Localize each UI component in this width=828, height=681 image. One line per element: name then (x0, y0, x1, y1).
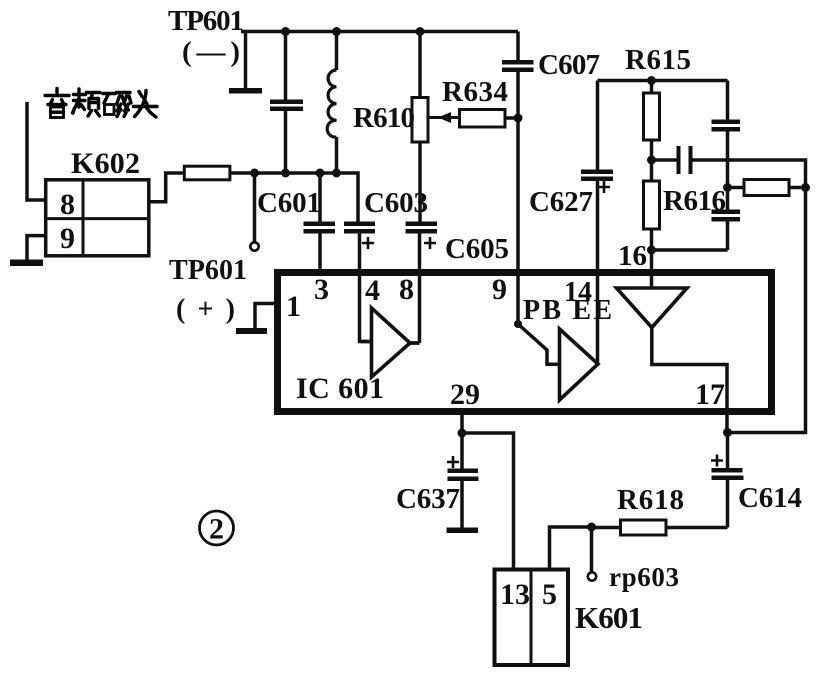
svg-text:4: 4 (365, 274, 380, 307)
test point TP601(+) (253, 173, 257, 242)
svg-text:5: 5 (542, 578, 557, 611)
ground C637 (447, 528, 479, 534)
resistor (feedback, unlabeled) (728, 186, 745, 190)
node pin9 bend (514, 320, 522, 328)
wire U601b output to pin 14 (596, 181, 600, 364)
svg-text:R610: R610 (353, 102, 415, 134)
node A (top bus / C602 junction) (281, 27, 290, 36)
svg-text:C601: C601 (257, 187, 321, 219)
svg-text:9: 9 (492, 273, 507, 306)
resistor R616 (650, 160, 654, 181)
test point rp603 (590, 527, 594, 572)
label 音频磁头 (drawn strokes) (45, 89, 157, 118)
test point TP601(-) lead (244, 32, 248, 89)
node N (pin29) (458, 429, 467, 438)
wire K602 pin8 to resistor (149, 173, 185, 202)
node I (R615 top) (647, 76, 656, 85)
node H (332, 169, 341, 178)
wire mid bus (230, 173, 358, 222)
wire feedback right vertical (693, 160, 806, 433)
svg-text:C627: C627 (529, 186, 593, 218)
svg-text:1: 1 (286, 290, 301, 323)
node C (top bus / R610 junction) (416, 27, 425, 36)
pin 29 wire (460, 415, 464, 433)
svg-text:rp603: rp603 (609, 562, 679, 592)
connector K601 (495, 570, 569, 666)
R610 wiper arrow (428, 116, 460, 119)
figure number (2) (200, 511, 234, 545)
right branch caps (726, 81, 730, 120)
svg-text:K601: K601 (575, 600, 643, 635)
node L (723, 183, 732, 192)
capacitor (right upper, unlabeled) (712, 120, 741, 125)
node M (801, 183, 810, 192)
capacitor C637 (460, 433, 464, 469)
svg-text:R618: R618 (617, 484, 684, 516)
resistor R615 (650, 81, 654, 94)
node F (281, 169, 290, 178)
pin 9 ground wire (27, 236, 46, 260)
pin labels (286, 240, 725, 411)
svg-text:TP601: TP601 (169, 255, 247, 286)
wire opamp output to pin8 (410, 341, 420, 345)
op-amp U601a (372, 308, 411, 377)
svg-text:8: 8 (399, 273, 414, 306)
potentiometer R610 (418, 32, 422, 98)
capacitor C627 (581, 170, 613, 175)
svg-text:C637: C637 (396, 483, 460, 515)
svg-text:16: 16 (618, 240, 647, 272)
wire U601c output to pin 17 (652, 328, 727, 434)
node E (testpoint junction) (250, 169, 259, 178)
svg-text:K602: K602 (71, 147, 140, 180)
node K (pin16) (647, 246, 656, 255)
resistor R634 (460, 110, 506, 128)
svg-text:C605: C605 (445, 233, 509, 265)
svg-text:8: 8 (60, 188, 75, 221)
capacitor (right lower, unlabeled) (712, 210, 741, 215)
IC U601 box (278, 273, 772, 412)
capacitor C605 (406, 222, 438, 227)
label K602 (71, 147, 140, 180)
svg-text:(+): (+) (176, 294, 235, 325)
node P (R618/rp603/K601) (587, 523, 596, 532)
capacitor C603 (344, 222, 375, 227)
resistor (unlabeled, series with head) (184, 166, 230, 180)
head lead wire (to pin 8) (27, 102, 46, 200)
wire top bus (241, 30, 518, 34)
node J (R615/R616/series cap) (647, 156, 656, 165)
inductor L (unlabeled) (335, 32, 339, 71)
wire top-right bus (598, 79, 728, 83)
label TP601(-) (168, 5, 244, 68)
capacitor C614 (726, 433, 730, 468)
wire pin16 into IC / op-amp U601c (617, 288, 688, 328)
svg-text:C603: C603 (364, 187, 428, 219)
svg-text:R634: R634 (442, 76, 508, 108)
svg-text:17: 17 (695, 378, 725, 411)
node D (R634 / C607 line junction) (514, 114, 523, 123)
wire to K601 pin 5 (550, 527, 592, 570)
ground K602 pin9 (10, 260, 43, 267)
capacitor (top, unlabeled) (284, 32, 288, 100)
resistor R618 (666, 526, 728, 530)
node B (top bus / inductor junction) (332, 27, 341, 36)
capacitor C607 (516, 32, 520, 61)
wire pin16 to right branch (652, 248, 728, 252)
svg-text:R615: R615 (625, 44, 691, 76)
svg-text:13: 13 (500, 578, 530, 611)
wire pin4 to opamp input (360, 340, 372, 344)
svg-text:C607: C607 (538, 49, 600, 81)
pin 1 ground (255, 304, 277, 330)
op-amp U601b (560, 329, 599, 400)
wire pin29 to K601 pin13 (462, 433, 514, 570)
connector K602 (46, 180, 149, 256)
node G (316, 169, 325, 178)
ground TP601(-) (229, 88, 262, 94)
capacitor C601 (318, 173, 322, 222)
node O (pin17) (723, 428, 732, 437)
svg-text:29: 29 (450, 378, 480, 411)
svg-text:TP601: TP601 (168, 5, 244, 37)
svg-text:2: 2 (209, 513, 224, 546)
svg-text:3: 3 (314, 273, 329, 306)
svg-text:9: 9 (60, 222, 75, 255)
wire pin9 to opamp U601b input (518, 272, 558, 364)
svg-text:C614: C614 (738, 482, 802, 514)
svg-text:(—): (—) (182, 36, 240, 68)
capacitor (series, unlabeled) (652, 158, 677, 162)
